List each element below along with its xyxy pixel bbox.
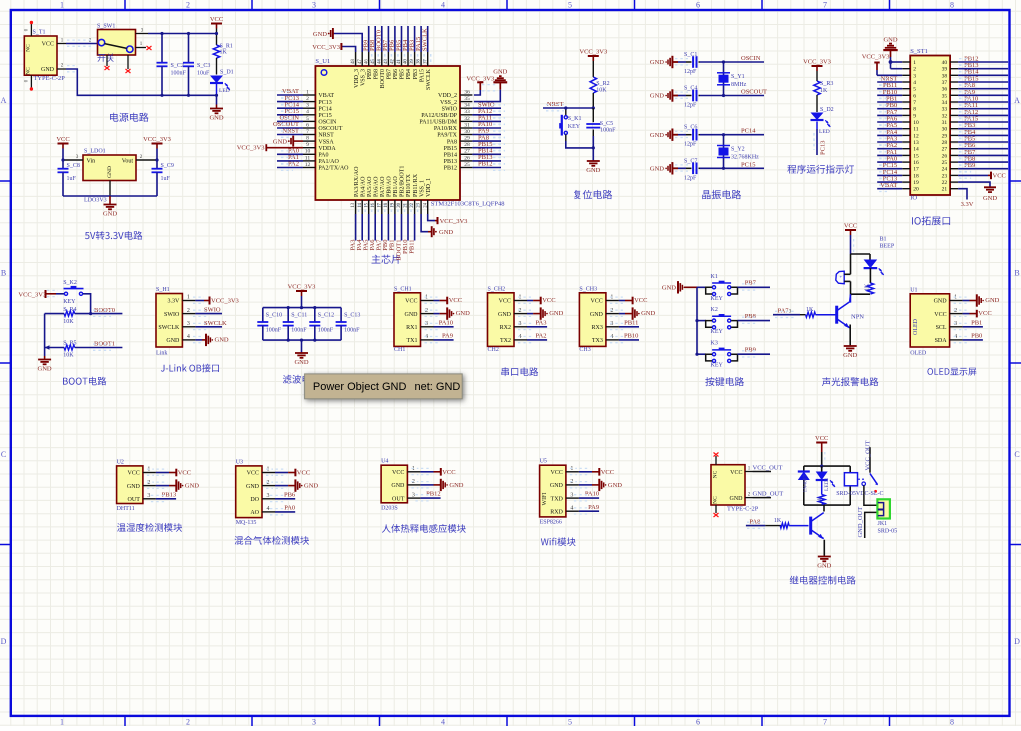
svg-text:12: 12 [913,133,919,139]
svg-text:VCC: VCC [591,299,603,305]
svg-text:26: 26 [464,155,470,161]
svg-text:S_Y1: S_Y1 [731,74,745,80]
svg-text:PB8: PB8 [745,313,756,320]
svg-text:PA6/AO: PA6/AO [373,176,379,197]
svg-text:OUT: OUT [128,497,141,503]
svg-text:A: A [1,96,7,105]
svg-text:VCC_OUT: VCC_OUT [753,465,783,472]
svg-text:12: 12 [305,162,311,168]
svg-text:23: 23 [942,173,948,179]
svg-text:S_D2: S_D2 [820,107,834,113]
svg-text:1K: 1K [774,518,782,524]
svg-text:KEY: KEY [711,363,724,369]
svg-text:PB0/AO: PB0/AO [387,176,393,197]
svg-text:GND: GND [215,337,229,344]
svg-text:U5: U5 [540,459,547,465]
svg-text:K1: K1 [711,274,718,280]
svg-text:S_C1: S_C1 [684,52,697,58]
svg-text:9: 9 [913,113,916,119]
svg-text:11: 11 [913,127,919,133]
svg-text:VDD_1: VDD_1 [426,178,432,197]
svg-text:PC15: PC15 [741,161,755,168]
svg-text:CH3: CH3 [579,347,590,353]
svg-text:PB14: PB14 [444,153,457,159]
svg-text:10uF: 10uF [197,71,210,77]
svg-text:40: 40 [942,60,948,66]
svg-text:3: 3 [312,1,316,10]
svg-text:VDDA: VDDA [318,146,336,152]
svg-text:3: 3 [147,493,150,499]
svg-text:PB7: PB7 [387,69,393,79]
svg-text:VCC: VCC [815,435,828,442]
svg-text:GND: GND [934,299,948,305]
svg-text:100nF: 100nF [318,328,334,334]
svg-text:PC15: PC15 [318,113,331,119]
svg-text:28: 28 [464,142,470,148]
svg-text:PB4: PB4 [406,69,412,79]
svg-text:KEY: KEY [711,329,724,335]
svg-text:SDA: SDA [935,338,948,344]
svg-text:SWIO: SWIO [442,106,458,112]
svg-text:VCC_3V3: VCC_3V3 [466,76,494,83]
svg-text:7: 7 [306,129,309,135]
svg-text:S_SW1: S_SW1 [97,24,115,30]
svg-text:4: 4 [913,80,916,86]
svg-text:PA1/AO: PA1/AO [318,159,339,165]
svg-text:15: 15 [364,202,369,207]
svg-text:2: 2 [186,1,190,10]
svg-text:NC: NC [26,44,32,52]
svg-text:LED: LED [819,129,830,135]
svg-text:20: 20 [913,187,919,193]
svg-text:VCC_3V3: VCC_3V3 [312,44,340,51]
svg-text:PA10: PA10 [439,320,453,327]
svg-text:S_K2: S_K2 [63,280,77,286]
svg-text:VCC: VCC [730,470,742,476]
svg-text:SWCLK: SWCLK [158,325,180,331]
svg-text:VCC_3V3: VCC_3V3 [211,298,239,305]
svg-text:PB11/RX: PB11/RX [413,173,419,197]
svg-text:PB13: PB13 [444,159,457,165]
svg-text:36: 36 [942,87,948,93]
svg-text:Vin: Vin [87,159,96,165]
svg-text:S_Y2: S_Y2 [731,147,745,153]
svg-text:SWIO: SWIO [204,307,221,314]
svg-text:S_C5: S_C5 [600,121,613,127]
svg-text:21: 21 [404,202,409,207]
svg-text:VCC: VCC [405,299,417,305]
svg-text:VCC_3V3: VCC_3V3 [18,292,46,299]
svg-text:32.768KHz: 32.768KHz [731,155,759,161]
svg-text:PB6: PB6 [284,491,296,498]
svg-text:GND_OUT: GND_OUT [753,491,784,498]
svg-text:PA5/AO: PA5/AO [367,176,373,197]
svg-text:10K: 10K [596,88,607,94]
svg-text:1N4007: 1N4007 [803,475,809,493]
svg-text:21: 21 [942,187,948,193]
svg-text:S_ST1: S_ST1 [910,48,928,55]
svg-text:17: 17 [913,167,919,173]
svg-text:VCC_3V3: VCC_3V3 [803,59,831,66]
svg-text:PA8: PA8 [447,139,457,145]
svg-text:GND: GND [107,166,113,178]
svg-text:VCC_3V3: VCC_3V3 [579,49,607,56]
svg-text:S_C9: S_C9 [161,163,174,169]
svg-text:K3: K3 [711,341,718,347]
svg-text:39: 39 [942,67,948,73]
svg-text:34: 34 [942,100,948,106]
svg-text:PB3: PB3 [413,69,419,79]
svg-text:GND: GND [304,483,318,490]
svg-text:GND: GND [985,297,999,304]
svg-text:16: 16 [371,202,376,207]
svg-text:6: 6 [306,122,309,128]
svg-text:1K: 1K [806,307,814,313]
svg-text:11: 11 [305,155,311,161]
svg-text:SWIO: SWIO [164,312,180,318]
svg-text:GND: GND [185,483,199,490]
svg-text:STM32F103C8T6_LQFP48: STM32F103C8T6_LQFP48 [431,201,505,208]
svg-text:NRST: NRST [547,101,564,108]
svg-text:OSCIN: OSCIN [741,55,761,62]
svg-text:GND: GND [650,132,664,139]
svg-text:S_C4: S_C4 [684,86,697,92]
svg-text:S_T1: S_T1 [33,30,46,36]
svg-text:24: 24 [942,167,948,173]
svg-text:GND: GND [38,366,52,373]
svg-text:PA15: PA15 [419,69,425,82]
svg-text:VSS_2: VSS_2 [440,100,457,106]
svg-text:18: 18 [384,202,389,207]
svg-text:OSCIN: OSCIN [318,120,337,126]
svg-text:S_R3: S_R3 [820,81,833,87]
svg-text:VCC: VCC [978,310,991,317]
svg-text:18: 18 [913,173,919,179]
svg-text:29: 29 [464,136,470,142]
svg-text:GND: GND [983,195,997,202]
svg-text:GND: GND [550,483,564,489]
svg-text:44: 44 [377,59,382,64]
svg-text:VCC: VCC [634,297,647,304]
svg-text:PC14: PC14 [741,128,756,135]
svg-text:VCC: VCC [601,469,614,476]
svg-text:TX3: TX3 [592,338,603,344]
svg-text:OUT: OUT [392,496,405,502]
svg-text:4: 4 [187,334,190,340]
svg-text:8: 8 [950,1,954,10]
svg-text:2: 2 [186,718,190,727]
svg-text:2: 2 [306,96,309,102]
svg-text:VDD_2: VDD_2 [438,93,457,99]
svg-text:GND: GND [405,312,419,318]
svg-text:PA0: PA0 [318,153,328,159]
svg-text:VCC: VCC [128,471,140,477]
svg-text:20: 20 [397,202,402,207]
svg-text:30: 30 [464,129,470,135]
svg-text:VCC: VCC [442,469,455,476]
svg-text:10K: 10K [63,353,74,359]
svg-text:GND: GND [391,483,405,489]
svg-text:3.3V: 3.3V [168,299,181,305]
svg-text:PA12/USB/DP: PA12/USB/DP [421,113,457,119]
svg-text:NRST: NRST [318,133,334,139]
svg-text:RX1: RX1 [406,325,417,331]
svg-text:3: 3 [412,492,415,498]
svg-text:GND: GND [209,115,223,122]
svg-text:OLED: OLED [913,318,919,335]
svg-text:5: 5 [568,1,572,10]
svg-text:GND: GND [313,31,327,38]
svg-text:7: 7 [913,100,916,106]
svg-text:CH1: CH1 [394,347,405,353]
svg-text:24: 24 [423,202,428,207]
svg-text:PB7: PB7 [745,280,757,287]
svg-text:GND: GND [456,310,470,317]
svg-text:VSS_3: VSS_3 [360,69,366,86]
svg-text:5: 5 [306,116,309,122]
svg-text:NC: NC [26,67,32,75]
svg-text:RX2: RX2 [500,325,511,331]
svg-text:S_C10: S_C10 [266,313,282,319]
svg-text:48: 48 [351,59,356,64]
svg-text:PC13: PC13 [318,100,331,106]
svg-text:D: D [1,637,7,646]
svg-text:8: 8 [950,718,954,727]
svg-text:37: 37 [942,80,948,86]
svg-text:GND_OUT: GND_OUT [857,507,864,538]
svg-text:KEY: KEY [63,299,76,305]
svg-text:3: 3 [306,103,309,109]
svg-text:1: 1 [306,89,309,95]
svg-text:GND: GND [641,310,655,317]
svg-text:GND: GND [449,482,463,489]
svg-text:PA3/RX/AO: PA3/RX/AO [354,166,360,197]
svg-text:3: 3 [187,321,190,327]
svg-text:SWCLK: SWCLK [426,68,432,90]
svg-text:PA0: PA0 [284,504,295,511]
svg-text:Vout: Vout [122,159,134,165]
svg-text:38: 38 [942,73,948,79]
svg-text:7: 7 [823,1,827,10]
svg-text:3: 3 [312,718,316,727]
svg-text:38: 38 [417,59,422,64]
svg-text:GND: GND [439,229,453,236]
svg-text:1uF: 1uF [67,176,77,182]
svg-text:VSSA: VSSA [318,139,334,145]
svg-text:U2: U2 [117,459,124,465]
svg-text:PB9: PB9 [745,347,756,354]
svg-text:U3: U3 [236,459,243,465]
svg-text:S_U1: S_U1 [315,58,330,65]
svg-text:42: 42 [391,59,396,64]
svg-text:4: 4 [441,718,445,727]
svg-text:A: A [1014,96,1020,105]
svg-text:D: D [1014,637,1020,646]
svg-text:GND: GND [166,338,180,344]
svg-text:30: 30 [942,127,948,133]
svg-text:PB8: PB8 [373,69,379,79]
svg-text:Power Object GND: Power Object GND [313,381,407,393]
svg-text:PB10: PB10 [624,333,638,340]
svg-text:PA9/TX: PA9/TX [437,133,457,139]
svg-text:U1: U1 [910,287,917,293]
svg-text:1uF: 1uF [161,176,171,182]
svg-text:12pF: 12pF [684,103,697,109]
svg-text:GND: GND [103,211,117,218]
svg-text:GND: GND [246,484,260,490]
svg-text:4: 4 [267,506,270,512]
svg-text:26: 26 [942,153,948,159]
svg-text:TX2: TX2 [500,338,511,344]
svg-text:ESP8266: ESP8266 [540,519,562,525]
svg-text:LED: LED [219,88,230,94]
svg-text:PB12: PB12 [444,166,457,172]
svg-text:PB1: PB1 [971,320,982,327]
svg-text:PA9: PA9 [442,333,453,340]
svg-text:WIFI: WIFI [542,493,548,506]
svg-text:PB15: PB15 [444,146,457,152]
svg-text:PA2: PA2 [536,333,547,340]
svg-text:6: 6 [913,93,916,99]
svg-text:VCC: VCC [499,299,511,305]
svg-text:S_D1: S_D1 [220,70,234,76]
svg-text:GND: GND [650,93,664,100]
svg-text:TXD: TXD [551,496,564,502]
svg-text:VCC: VCC [993,172,1006,179]
svg-text:B1: B1 [880,237,887,243]
svg-text:BOOT0: BOOT0 [380,69,386,88]
svg-text:VCC: VCC [844,223,857,230]
svg-text:GND: GND [590,312,604,318]
svg-text:1K: 1K [864,283,870,291]
svg-text:100nF: 100nF [600,127,616,133]
svg-text:S_LDO1: S_LDO1 [84,149,106,155]
svg-text:PC14: PC14 [318,106,331,112]
svg-text:GND: GND [650,59,664,66]
svg-text:C: C [1,450,6,459]
svg-text:13: 13 [913,140,919,146]
svg-text:16: 16 [913,160,919,166]
svg-text:VCC: VCC [934,312,946,318]
svg-text:K2: K2 [711,307,718,313]
svg-text:40: 40 [404,59,409,64]
svg-text:100nF: 100nF [291,328,307,334]
svg-text:GND: GND [817,563,831,570]
svg-text:GND: GND [273,138,287,145]
svg-text:8: 8 [306,136,309,142]
svg-text:S_C12: S_C12 [318,313,334,319]
svg-text:19: 19 [391,202,396,207]
svg-text:1: 1 [913,60,916,66]
svg-text:BEEP: BEEP [880,244,895,250]
svg-text:3: 3 [913,73,916,79]
svg-text:12pF: 12pF [684,142,697,148]
svg-text:41: 41 [397,59,402,64]
svg-text:36: 36 [464,89,470,95]
svg-text:27: 27 [464,149,470,155]
svg-text:GND: GND [493,69,507,76]
svg-text:C: C [1014,450,1019,459]
svg-text:GND: GND [549,310,563,317]
svg-text:35: 35 [942,93,948,99]
svg-text:GND: GND [41,67,55,73]
svg-text:net: GND: net: GND [415,381,461,393]
svg-text:PA4/AO: PA4/AO [360,176,366,197]
svg-text:100nF: 100nF [266,328,282,334]
svg-text:PB5: PB5 [400,69,406,79]
svg-text:NC: NC [713,496,719,504]
svg-text:SWCLK: SWCLK [422,28,429,51]
svg-text:VCC: VCC [551,470,563,476]
svg-text:TX1: TX1 [407,338,418,344]
svg-text:47: 47 [358,59,363,64]
svg-text:22: 22 [410,202,415,207]
svg-text:GND: GND [608,482,622,489]
svg-text:Link: Link [156,351,167,357]
svg-text:IO: IO [910,195,917,202]
svg-text:OLED: OLED [910,351,927,357]
svg-text:GND: GND [127,484,141,490]
svg-text:1K: 1K [817,496,823,503]
svg-text:34: 34 [464,103,470,109]
svg-text:100nF: 100nF [344,328,360,334]
svg-text:3: 3 [267,493,270,499]
svg-text:PB11: PB11 [624,320,638,327]
svg-text:LDO3V3: LDO3V3 [84,198,107,204]
svg-text:S_C6: S_C6 [684,125,697,131]
svg-text:4: 4 [441,1,445,10]
svg-text:6: 6 [696,718,700,727]
svg-text:PA9: PA9 [588,504,599,511]
svg-text:S_CH1: S_CH1 [394,286,412,292]
svg-text:35: 35 [464,96,470,102]
svg-text:5: 5 [568,718,572,727]
svg-text:U4: U4 [381,459,388,465]
svg-text:VSS_1: VSS_1 [419,180,425,197]
svg-text:NPN: NPN [851,314,864,321]
svg-text:S_R2: S_R2 [596,81,609,87]
svg-text:CH2: CH2 [488,347,499,353]
svg-text:GND: GND [650,166,664,173]
svg-text:VCC_3V3: VCC_3V3 [237,145,265,152]
svg-text:45: 45 [371,59,376,64]
svg-text:8MHz: 8MHz [731,82,747,88]
svg-text:S_CH3: S_CH3 [579,286,597,292]
svg-text:PA11/USB/DM: PA11/USB/DM [419,120,457,126]
svg-text:2: 2 [187,308,190,314]
svg-text:28: 28 [942,140,948,146]
svg-text:PB2/BOOT1: PB2/BOOT1 [400,166,406,197]
svg-text:VCC: VCC [178,470,191,477]
svg-text:31: 31 [942,120,948,126]
svg-text:10: 10 [305,149,311,155]
svg-text:D203S: D203S [381,505,398,511]
svg-text:AO: AO [250,510,259,516]
svg-text:PA7/AO: PA7/AO [380,176,386,197]
svg-text:PB1/AO: PB1/AO [393,176,399,197]
svg-text:S_CH2: S_CH2 [488,286,506,292]
svg-text:14: 14 [358,202,363,207]
svg-text:OSCOUT: OSCOUT [318,126,342,132]
svg-text:S_K1: S_K1 [568,116,582,122]
svg-text:12pF: 12pF [684,69,697,75]
svg-text:PB9: PB9 [367,69,373,79]
svg-text:MQ-135: MQ-135 [236,520,257,526]
svg-text:VCC: VCC [449,297,462,304]
svg-text:VCC: VCC [392,470,404,476]
svg-text:KEY: KEY [711,296,724,302]
svg-text:GND: GND [498,312,512,318]
